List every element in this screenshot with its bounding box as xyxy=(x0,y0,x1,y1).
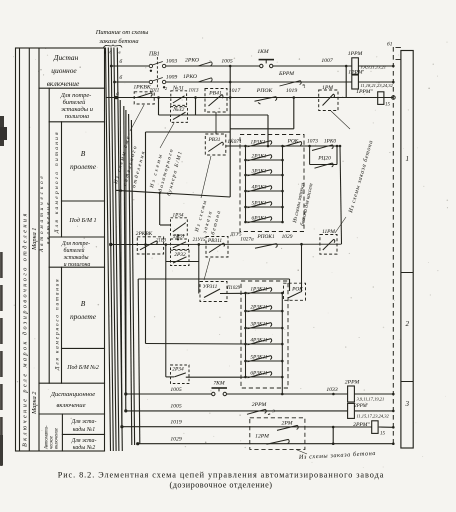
contact 1Р3К11 xyxy=(246,292,283,294)
svg-text:Включение реле марок дозировоч: Включение реле марок дозировочного отдел… xyxy=(22,211,29,447)
table row line y383 xyxy=(39,382,105,384)
cell: Для потребителей эстакады и полигона (2) xyxy=(61,241,91,268)
svg-text:бителей: бителей xyxy=(64,247,85,254)
contact bank2 1Р3К11..6Р3К11 dashed box xyxy=(241,281,288,388)
contact 6Р3К1 xyxy=(246,221,283,223)
contact 2Р3К1 xyxy=(246,159,283,161)
wire parallel 2Р32 verticals xyxy=(165,245,167,262)
bus line 3 xyxy=(111,48,116,452)
wire rung2 (node 1009) xyxy=(115,81,150,83)
svg-text:1019: 1019 xyxy=(170,420,182,426)
leader №32 to note xyxy=(160,123,174,148)
svg-text:2РРМ': 2РРМ' xyxy=(354,404,369,409)
bus line 2 xyxy=(108,48,113,452)
table row line y414 xyxy=(39,413,105,415)
svg-text:1073: 1073 xyxy=(307,139,318,145)
svg-text:БРРМ: БРРМ xyxy=(278,71,294,77)
wire rung1 (node 1003/1005/1007) xyxy=(111,65,149,67)
svg-text:а: а xyxy=(116,91,119,97)
wire junction riser 1013 xyxy=(195,98,197,116)
svg-text:3Р3К11: 3Р3К11 xyxy=(249,322,268,328)
contact 2РКВК with box xyxy=(137,237,163,254)
contact 2РМ xyxy=(277,425,298,430)
svg-text:включение: включение xyxy=(56,402,85,409)
bank1 right vertical xyxy=(282,146,284,222)
bus line 4 xyxy=(114,48,119,452)
wire riser 1007 x346 xyxy=(345,66,347,98)
cell: Для потребителей эстакады и полигона (1) xyxy=(60,92,93,120)
wire riser x340 down to 11РМ rung xyxy=(340,146,342,244)
svg-text:П1029: П1029 xyxy=(226,286,241,291)
leader 1РМ to note xyxy=(331,111,350,129)
svg-text:Марка 1: Марка 1 xyxy=(31,228,38,251)
table outer border xyxy=(16,48,105,451)
contact 2Р32 with box xyxy=(171,250,190,265)
table row line y122 xyxy=(49,121,104,123)
contact РВ31 with box xyxy=(205,134,226,155)
wire 2Р34 to bank2 row6 xyxy=(186,376,246,378)
svg-text:Дистанционное: Дистанционное xyxy=(50,391,96,398)
table inner vertical line x19 xyxy=(19,48,21,451)
wire 2Р32 branch xyxy=(166,261,199,263)
extra vertical wire v7 xyxy=(124,106,126,411)
svg-text:6Р3К11: 6Р3К11 xyxy=(250,371,268,377)
wire 1Р34 output drop xyxy=(177,235,179,239)
svg-text:включение: включение xyxy=(55,427,60,449)
svg-text:2Р3К1: 2Р3К1 xyxy=(252,154,267,160)
svg-text:эстакады и: эстакады и xyxy=(61,106,93,113)
svg-text:В: В xyxy=(81,149,86,158)
svg-text:включение: включение xyxy=(47,79,80,88)
leader РВ31 to note xyxy=(201,156,211,198)
svg-text:1029: 1029 xyxy=(282,234,293,240)
svg-text:1005: 1005 xyxy=(221,59,233,65)
svg-text:12РМ: 12РМ xyxy=(255,434,269,440)
extra vertical wire v11 xyxy=(138,279,140,444)
wire riser РОК x301.5 xyxy=(301,244,303,292)
wire riser to 2Р34 xyxy=(165,262,167,377)
contact УР311 with box xyxy=(200,282,227,302)
contact РОК xyxy=(284,142,302,147)
svg-text:Для эста-: Для эста- xyxy=(71,438,97,444)
wire РОК to 1073 xyxy=(283,145,341,147)
contact РВ311 with box xyxy=(206,237,228,258)
wire between РВ41 and РВ31 xyxy=(215,112,217,134)
svg-text:и полигона: и полигона xyxy=(64,262,91,268)
svg-text:№32: №32 xyxy=(172,107,184,113)
extra vertical wire v10 xyxy=(131,120,134,445)
contact bank 1Р3К1..6Р3К1 dashed box xyxy=(240,135,304,232)
svg-text:Для потре-: Для потре- xyxy=(61,241,90,247)
extra vertical wire v8 xyxy=(125,110,127,394)
leader 12РМ box to note xyxy=(296,450,307,455)
section1 labels xyxy=(104,49,391,113)
node circle at return bus rung3 xyxy=(392,96,396,100)
svg-text:1РРМ: 1РРМ xyxy=(348,51,363,57)
wire riser 1005/1017 x230 xyxy=(229,66,231,197)
svg-text:в: в xyxy=(119,50,121,55)
svg-text:1Р3К11: 1Р3К11 xyxy=(250,287,268,293)
svg-text:1011: 1011 xyxy=(150,89,160,94)
svg-text:2РМ: 2РМ xyxy=(282,421,293,427)
svg-text:РПОК: РПОК xyxy=(256,88,274,94)
svg-text:2РКВК: 2РКВК xyxy=(136,231,153,237)
svg-text:1009: 1009 xyxy=(166,75,178,81)
svg-text:Под Б/М №2: Под Б/М №2 xyxy=(66,364,99,371)
contact 2РРМ xyxy=(247,409,270,414)
leader 1РКВК to note xyxy=(130,105,144,131)
svg-text:15: 15 xyxy=(380,432,386,437)
wire riser x145.5 down to rung 2РКВК xyxy=(145,132,147,344)
svg-text:1РРМ": 1РРМ" xyxy=(356,89,373,95)
cell: Для эстакады №1 xyxy=(71,419,97,433)
wire mid horizontal tap xyxy=(116,190,231,197)
bank2 left vertical xyxy=(245,293,247,377)
wire rung 1005-1033 xyxy=(126,393,212,395)
table inner vertical line x62 bottom xyxy=(61,414,63,451)
table row line y434 xyxy=(62,433,104,435)
svg-text:21У15: 21У15 xyxy=(193,238,206,243)
terminal bar divider 2/3 xyxy=(401,381,413,383)
svg-text:1019: 1019 xyxy=(286,88,298,94)
svg-text:РВ311: РВ311 xyxy=(207,238,223,244)
svg-text:5Р3К1: 5Р3К1 xyxy=(252,201,267,207)
svg-text:11РМ: 11РМ xyxy=(322,229,335,235)
svg-text:1: 1 xyxy=(406,155,410,163)
contact group 2РМ/12РМ dashed box xyxy=(250,418,305,450)
wire riser x160 xyxy=(159,193,161,225)
svg-text:эстакады: эстакады xyxy=(64,254,89,261)
svg-text:Под Б/М 1: Под Б/М 1 xyxy=(68,217,96,224)
wire riser to УР311 xyxy=(198,262,200,294)
wire 1Р34 feed stub xyxy=(160,224,171,226)
switch ПВ1 xyxy=(149,57,166,89)
feed note: Питание от схемы заказа бетона xyxy=(95,29,149,45)
svg-text:Для камерного питания: Для камерного питания xyxy=(54,130,60,234)
svg-text:кады №2: кады №2 xyxy=(73,444,96,451)
wire rung 1005-2РРМ' xyxy=(126,410,348,412)
junction dots bottom xyxy=(120,65,394,446)
wire riser 1019 x293.8 xyxy=(293,98,295,129)
table inner vertical line x29 xyxy=(28,48,30,451)
terminal bar xyxy=(401,51,413,449)
bank1 left vertical xyxy=(245,146,247,222)
contact 2Р3К11 xyxy=(246,310,283,312)
coil 2РРМ'' xyxy=(372,421,378,434)
contact 3Р3К11 xyxy=(246,327,283,329)
svg-text:заказа бетона: заказа бетона xyxy=(98,38,138,45)
svg-text:4Р3К11: 4Р3К11 xyxy=(250,338,268,344)
svg-text:Марка 2: Марка 2 xyxy=(31,391,38,415)
svg-text:В: В xyxy=(81,299,86,308)
cell: Для эстакады №2 xyxy=(71,438,97,451)
bus line 5 xyxy=(117,48,122,452)
bottom labels xyxy=(170,380,385,443)
extra vertical wire v6 xyxy=(120,100,122,427)
contact 4Р3К11 xyxy=(246,343,283,345)
contact 4Р3К3 xyxy=(246,190,283,192)
table row line y267 xyxy=(49,266,104,268)
svg-text:1К071: 1К071 xyxy=(227,139,242,145)
terminal bar labels xyxy=(405,155,410,408)
svg-text:ционное: ционное xyxy=(51,66,77,75)
table inner vertical line x39 xyxy=(38,48,40,451)
svg-text:2Р34: 2Р34 xyxy=(172,367,184,373)
wire drop РОК feed xyxy=(289,279,291,291)
wire rung 2РКВК xyxy=(111,243,342,245)
svg-text:21ВЗ: 21ВЗ xyxy=(156,239,167,244)
bank2 right vertical xyxy=(281,293,283,394)
contact 3Р3К1 xyxy=(246,174,283,176)
wire rung3 (node a/1011/1013/1017/1019) xyxy=(106,97,394,99)
svg-text:1Р34: 1Р34 xyxy=(173,212,184,219)
contact 1Р34 with box xyxy=(171,218,188,235)
contact 1РКВК with box xyxy=(134,92,154,104)
branch РЦ20 verticals xyxy=(309,146,311,165)
contact 6Р3К11 xyxy=(246,376,283,378)
contact 1РК0 xyxy=(312,145,333,151)
svg-text:включение: включение xyxy=(46,200,52,244)
svg-text:б1: б1 xyxy=(387,41,393,48)
svg-text:3Р3К1: 3Р3К1 xyxy=(251,169,267,175)
svg-text:Дистан: Дистан xyxy=(53,53,79,62)
contact БРРМ xyxy=(280,81,305,86)
table row line y348 xyxy=(62,347,105,349)
table cell texts xyxy=(47,53,99,451)
svg-text:(дозировочное отделение): (дозировочное отделение) xyxy=(170,481,273,490)
svg-text:бителей: бителей xyxy=(63,99,86,106)
svg-text:кады №1: кады №1 xyxy=(73,426,96,433)
section2 rung labels xyxy=(136,229,336,373)
wire РЦ20 branch xyxy=(310,164,337,166)
junction dots section2 xyxy=(109,239,303,247)
svg-text:4Р3К3: 4Р3К3 xyxy=(252,185,267,191)
svg-text:1005: 1005 xyxy=(170,387,182,393)
rotated column texts xyxy=(22,130,61,450)
svg-text:1017: 1017 xyxy=(229,88,242,94)
svg-text:полигона: полигона xyxy=(65,113,89,120)
wire horizontal y279 РОК feed xyxy=(138,278,289,280)
svg-text:15: 15 xyxy=(385,103,391,108)
wire rung 1029-12РМ xyxy=(138,443,394,445)
svg-text:пролете: пролете xyxy=(70,162,97,171)
svg-text:2РРМ: 2РРМ xyxy=(345,380,360,386)
wire mid horizontal y128.8 xyxy=(230,128,294,130)
contact 1РМ with box xyxy=(319,90,338,111)
contact 2Р34 with box xyxy=(171,365,190,384)
contact 2Р31 with box xyxy=(171,239,189,250)
svg-text:Питание от схемы: Питание от схемы xyxy=(95,29,149,36)
svg-text:УР311: УР311 xyxy=(203,284,218,290)
coil 1РРМ'' xyxy=(378,92,384,105)
svg-text:1013: 1013 xyxy=(189,89,200,94)
svg-text:1005: 1005 xyxy=(170,404,182,410)
leader РВ311 to УР311 note xyxy=(204,258,210,280)
cell: Дистанционное включение (bottom) xyxy=(50,391,96,409)
svg-text:РОК: РОК xyxy=(291,287,303,293)
contact 5Р3К11 xyxy=(246,360,283,362)
contact 2РКО xyxy=(198,62,212,66)
svg-text:Для эста-: Для эста- xyxy=(71,419,97,425)
wire junction riser 1011 xyxy=(158,98,160,116)
svg-text:3: 3 xyxy=(405,400,410,408)
svg-text:1: 1 xyxy=(303,84,305,89)
extra vertical wire v9 xyxy=(129,114,132,445)
bus line a xyxy=(106,48,111,452)
table row line y201 xyxy=(62,200,105,202)
svg-text:2Р3К11: 2Р3К11 xyxy=(250,305,268,311)
return bus б1 (dashed) xyxy=(392,47,394,444)
svg-text:5Р3К11: 5Р3К11 xyxy=(250,355,268,361)
svg-text:пролете: пролете xyxy=(70,312,97,321)
svg-text:7КМ: 7КМ xyxy=(213,381,225,387)
bank2 junction dots xyxy=(244,292,283,379)
svg-text:1РРМ': 1РРМ' xyxy=(348,70,364,76)
overbrace above supply buses xyxy=(104,45,123,48)
wire branch N32 horizontal xyxy=(159,114,269,116)
svg-text:РВ31: РВ31 xyxy=(208,137,221,143)
wire riser x268 xyxy=(267,115,269,146)
svg-text:1КМ: 1КМ xyxy=(257,49,269,55)
coil 2РРМ' xyxy=(348,403,355,418)
svg-text:1Р3К1: 1Р3К1 xyxy=(251,140,266,146)
svg-text:1007: 1007 xyxy=(321,58,334,64)
contact №31 with box xyxy=(171,91,187,106)
table inner vertical line x61 mid xyxy=(61,267,63,383)
svg-text:РВ41: РВ41 xyxy=(208,91,222,97)
svg-text:1РКО: 1РКО xyxy=(183,74,197,80)
pushbutton 7КМ xyxy=(212,388,228,396)
svg-text:1003: 1003 xyxy=(166,59,178,65)
terminal bar divider 1/2 xyxy=(401,272,413,274)
svg-text:Для потре-: Для потре- xyxy=(60,92,92,99)
svg-text:6Р3К1: 6Р3К1 xyxy=(252,216,267,222)
bar tick marks xyxy=(396,48,401,60)
svg-text:Для камерного питания: Для камерного питания xyxy=(55,278,61,371)
wire horizontal y343.5 to bank2 row4 xyxy=(146,343,246,346)
svg-text:№31: №31 xyxy=(172,86,184,92)
svg-text:1029: 1029 xyxy=(170,437,182,443)
svg-text:РЦ20: РЦ20 xyxy=(317,156,331,162)
contact РПОК1 xyxy=(255,244,277,249)
wire УР311 to bank2 xyxy=(220,292,246,294)
contact 11РМ with box xyxy=(320,235,337,255)
svg-text:РПОК1: РПОК1 xyxy=(256,234,275,240)
leader 11РМ to note xyxy=(335,217,346,233)
wire riser x333 xyxy=(332,427,334,444)
svg-text:1027а: 1027а xyxy=(240,237,254,243)
coil 1РРМ xyxy=(352,58,359,74)
contact 1Р3К1 xyxy=(246,145,283,147)
wire rung 1019-2РМ xyxy=(122,426,372,428)
svg-text:Автоматическое: Автоматическое xyxy=(39,173,45,253)
svg-text:РОК: РОК xyxy=(287,139,299,145)
scan artifact strip left edge xyxy=(0,116,4,146)
svg-text:1РМ: 1РМ xyxy=(322,85,333,91)
contact №32 with box xyxy=(171,107,188,123)
wire rung 1К071 xyxy=(226,145,246,147)
contact РВ41 with box xyxy=(205,89,227,113)
table row line y88 xyxy=(39,87,105,89)
svg-text:2: 2 xyxy=(406,320,410,328)
contact РПОК xyxy=(255,97,277,105)
table row line y237 xyxy=(49,236,104,238)
contact РЦ20 xyxy=(315,163,334,168)
svg-text:2Р31: 2Р31 xyxy=(173,234,185,240)
contact 1РКО xyxy=(198,78,212,82)
contact РОК(2) with box xyxy=(284,283,306,300)
svg-text:2РКО: 2РКО xyxy=(185,58,199,64)
svg-text:2РРМ": 2РРМ" xyxy=(353,422,370,428)
svg-text:1РК0: 1РК0 xyxy=(324,139,337,145)
junction dots section1 xyxy=(110,65,348,195)
svg-text:2РРМ: 2РРМ xyxy=(252,402,267,408)
bank rung labels xyxy=(208,137,337,222)
wire mid horizontal y132 xyxy=(146,131,231,133)
table inner vertical line x49 xyxy=(48,88,50,383)
svg-text:2Р32: 2Р32 xyxy=(174,252,186,258)
contact 12РМ xyxy=(267,439,290,444)
svg-text:Рис. 8.2. Элементная схема цеп: Рис. 8.2. Элементная схема цепей управле… xyxy=(58,471,385,480)
bank2 labels xyxy=(203,284,304,377)
coil 2РРМ xyxy=(348,386,355,402)
contact 5Р3К1 xyxy=(246,206,283,208)
table inner vertical line x61 upper xyxy=(61,122,63,237)
pushbutton 1КМ xyxy=(259,60,274,68)
coil 1РРМ' xyxy=(352,75,359,89)
svg-text:1033: 1033 xyxy=(326,387,338,393)
svg-text:ПВ1: ПВ1 xyxy=(148,52,160,58)
bank1 junction dots xyxy=(244,145,341,224)
